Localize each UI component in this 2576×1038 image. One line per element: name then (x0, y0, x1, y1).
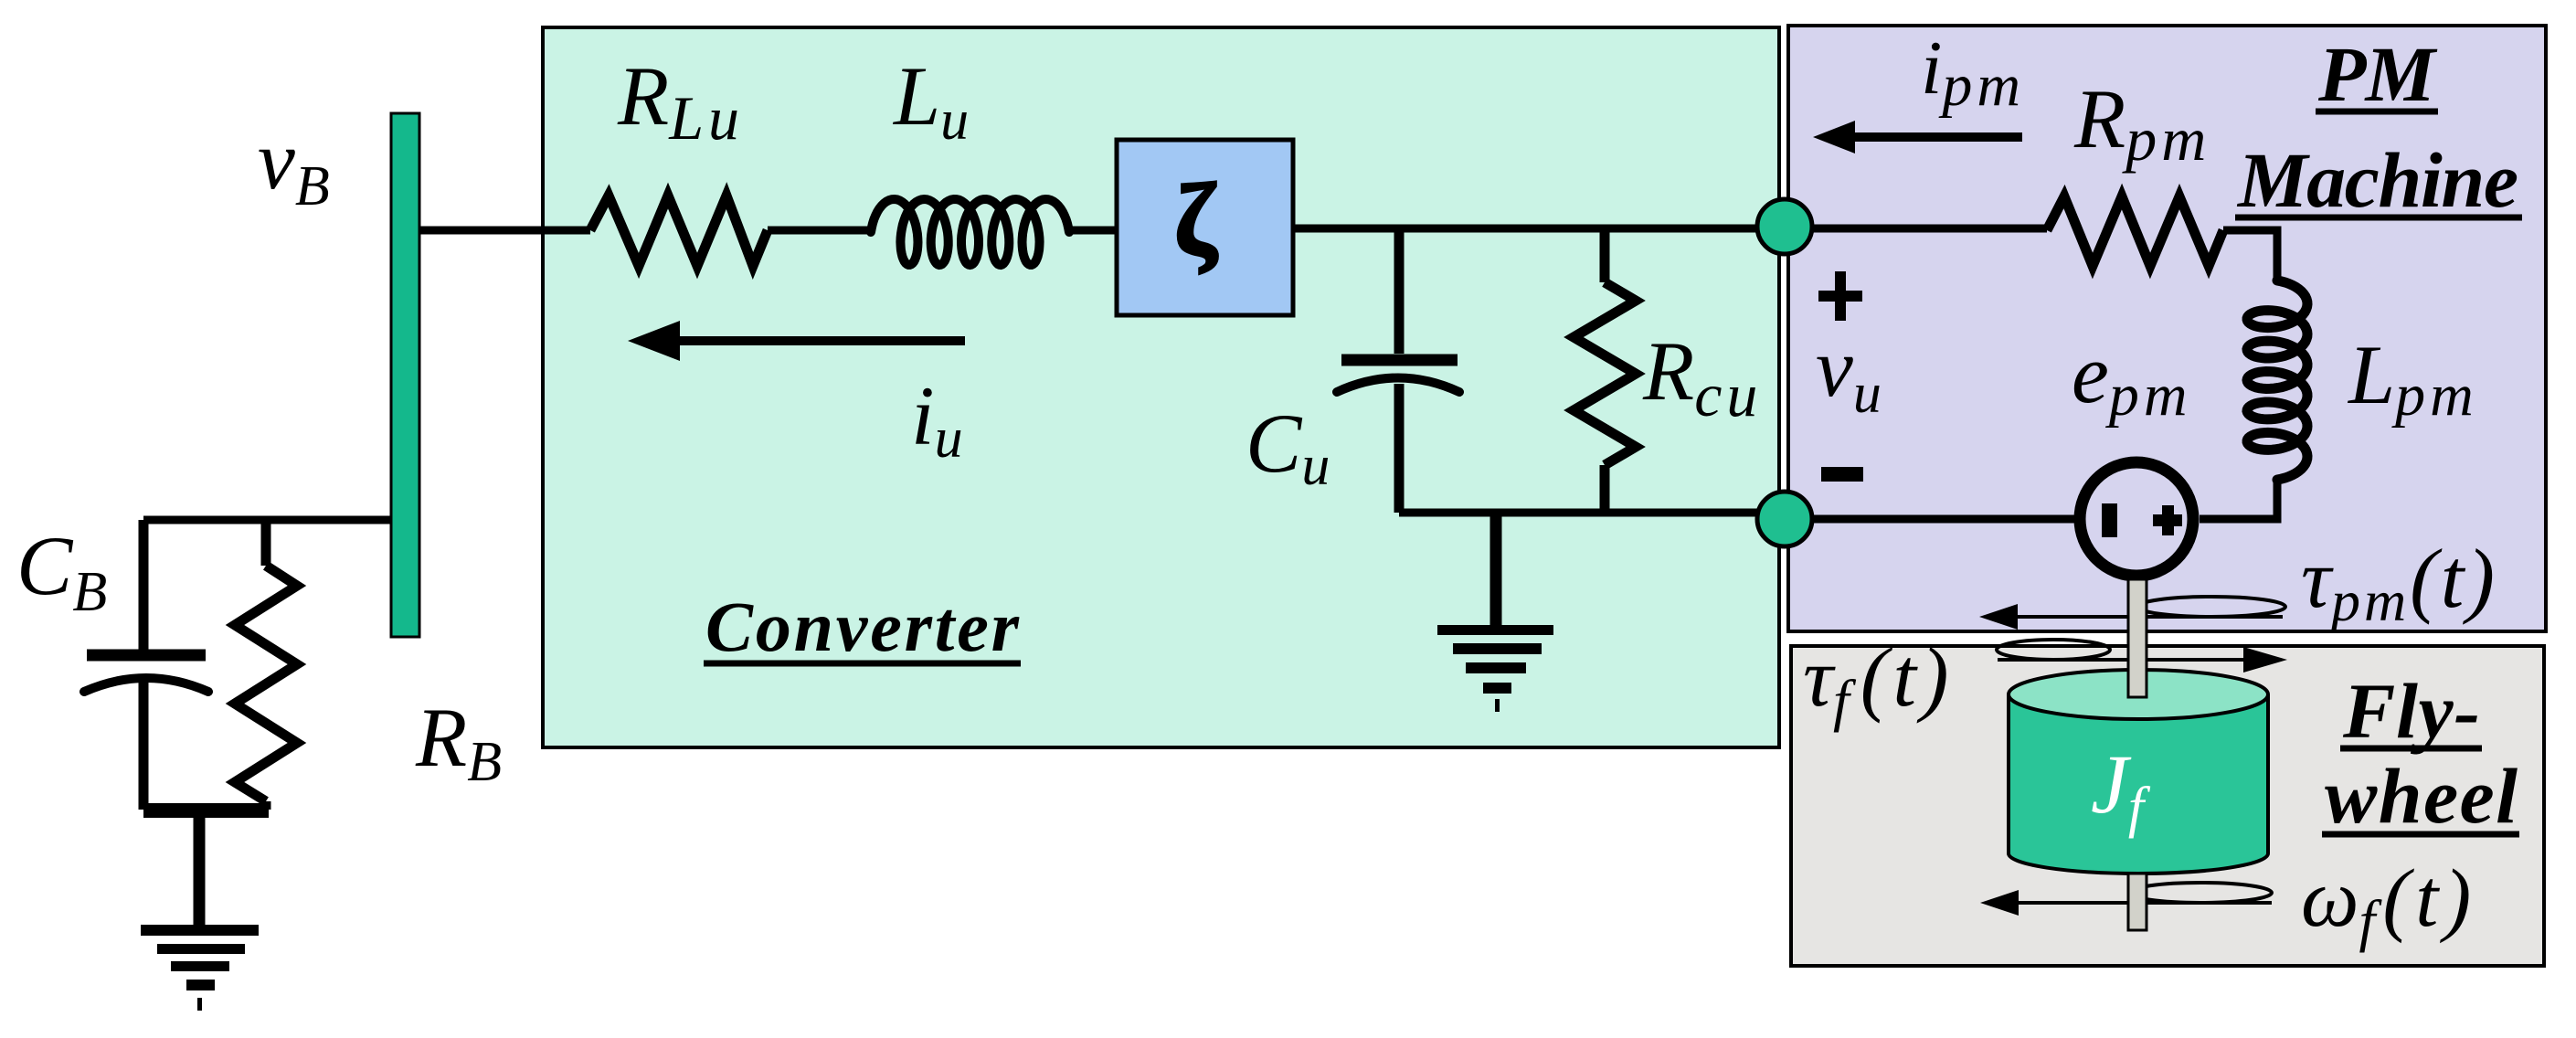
svg-text:Converter: Converter (705, 587, 1020, 666)
svg-text:wheel: wheel (2325, 752, 2518, 840)
svg-text:ωf(t): ωf(t) (2301, 853, 2476, 953)
svg-text:τf(t): τf(t) (1803, 630, 1954, 733)
svg-text:ζ: ζ (1174, 164, 1218, 277)
svg-text:Fly-: Fly- (2342, 667, 2480, 755)
svg-text:Machine: Machine (2236, 136, 2518, 224)
svg-text:PM: PM (2317, 30, 2438, 118)
